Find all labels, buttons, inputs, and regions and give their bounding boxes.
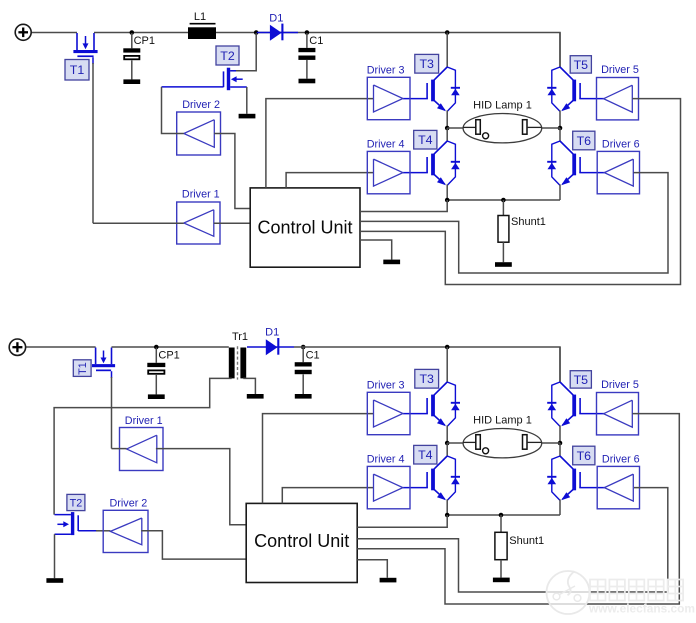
transformer Tr1 bbox=[229, 348, 235, 379]
wire Driver 4 input bbox=[286, 173, 373, 188]
svg-text:T4: T4 bbox=[418, 448, 433, 462]
wire Tr1 primary return bbox=[54, 378, 232, 514]
T6 label bbox=[573, 131, 595, 150]
wire Driver 2 input bbox=[214, 134, 250, 209]
wire T5 bottom emitter stub bbox=[559, 425, 561, 443]
driver U5 (Driver 5) bbox=[597, 78, 639, 120]
wire T5 gate bbox=[579, 98, 604, 100]
driver U4 (Driver 4) bbox=[367, 151, 410, 193]
wire control unit to bridge bbox=[360, 200, 447, 212]
wire bridge bottom rail bottom bbox=[447, 514, 560, 516]
transistor T1 (p-MOSFET) bbox=[76, 33, 78, 50]
capacitor C1 bbox=[306, 33, 308, 48]
wire Driver 3 bottom input bbox=[263, 414, 374, 504]
wire T2 gate bbox=[162, 86, 224, 88]
wire Driver 1 bottom input bbox=[156, 449, 246, 525]
wire Driver 2 output bbox=[162, 87, 184, 134]
svg-text:Driver 3: Driver 3 bbox=[367, 379, 405, 391]
wire T2 drain bbox=[230, 33, 256, 71]
T5 bottom label bbox=[570, 371, 591, 388]
svg-text:T1: T1 bbox=[70, 63, 85, 77]
svg-text:Shunt1: Shunt1 bbox=[511, 216, 546, 228]
wire bridge bottom rail bbox=[447, 199, 560, 201]
input terminal + (bottom) bbox=[9, 339, 25, 355]
T4 bottom label bbox=[414, 445, 437, 464]
wire T1 bottom gate down bbox=[111, 371, 113, 378]
driver U6 (Driver 6) bbox=[597, 151, 639, 193]
svg-text:T3: T3 bbox=[419, 57, 434, 71]
wire T4 emitter stub bbox=[446, 184, 448, 200]
wire bridge top rail bottom bbox=[447, 347, 560, 382]
transistor T3 bottom (IGBT) bbox=[434, 382, 447, 395]
svg-text:C1: C1 bbox=[306, 349, 320, 361]
control unit U7 bbox=[250, 188, 360, 267]
wire control unit to Driver 5 bbox=[360, 99, 681, 285]
svg-text:L1: L1 bbox=[194, 11, 206, 23]
wire Driver 1 bottom output bbox=[112, 448, 127, 450]
wire T4 gate bbox=[403, 172, 428, 174]
node lamp left junction bbox=[445, 126, 450, 131]
wire T3 emitter stub bbox=[446, 110, 448, 128]
wire T6 collector stub bbox=[559, 128, 561, 141]
wire bottom rail bbox=[112, 346, 229, 348]
svg-text:Control Unit: Control Unit bbox=[257, 217, 352, 237]
T1 bottom label bbox=[73, 360, 91, 377]
capacitor CP1 bbox=[131, 33, 133, 48]
driver U1 (Driver 1) bbox=[177, 202, 220, 244]
node C1 junction bbox=[305, 30, 310, 35]
diode D1 bottom bbox=[247, 346, 294, 348]
inductor L1 bbox=[188, 27, 216, 39]
wire T6 emitter stub bbox=[559, 184, 561, 200]
wire T6 bottom collector stub bbox=[559, 443, 561, 456]
transistor T6 (IGBT) bbox=[560, 141, 573, 154]
T2 ground bbox=[239, 114, 256, 119]
wire T3 bottom gate bbox=[403, 413, 428, 415]
svg-text:T4: T4 bbox=[418, 133, 433, 147]
svg-text:T5: T5 bbox=[574, 58, 589, 72]
wire T2 bottom source to ground bbox=[54, 534, 56, 578]
wire T2 bottom gate bbox=[78, 530, 96, 532]
lamp HID Lamp 1 bottom bbox=[447, 442, 463, 444]
wire Driver 3 input bbox=[266, 99, 374, 188]
driver U2 (Driver 2) bbox=[177, 112, 221, 155]
C1 bottom ground bbox=[295, 394, 312, 399]
node lamp left junction bottom bbox=[445, 441, 450, 446]
svg-text:Driver 5: Driver 5 bbox=[601, 379, 639, 391]
T2 bottom ground bbox=[46, 578, 63, 583]
node CP1 junction bbox=[130, 30, 135, 35]
transistor T2 (MOSFET) bbox=[227, 68, 230, 91]
transistor T6 bottom (IGBT) bbox=[560, 456, 573, 469]
svg-text:Driver 3: Driver 3 bbox=[367, 64, 405, 76]
svg-text:Driver 4: Driver 4 bbox=[367, 453, 405, 465]
control unit ground bbox=[383, 260, 400, 265]
capacitor C1 bottom bbox=[302, 348, 304, 363]
wire top rail bbox=[94, 32, 447, 34]
wire control unit bottom to bridge bbox=[357, 515, 447, 527]
driver U4 bottom (Driver 4) bbox=[367, 466, 410, 508]
wire T6 bottom emitter stub bbox=[559, 499, 561, 515]
svg-text:D1: D1 bbox=[269, 12, 283, 24]
svg-text:HID Lamp 1: HID Lamp 1 bbox=[473, 100, 532, 112]
svg-text:T2: T2 bbox=[220, 49, 235, 63]
svg-text:Driver 2: Driver 2 bbox=[182, 99, 220, 111]
wire T5 collector stub bbox=[559, 33, 561, 68]
driver U1 bottom (Driver 1) bbox=[120, 428, 164, 471]
svg-text:Control Unit: Control Unit bbox=[254, 531, 349, 551]
svg-text:T3: T3 bbox=[419, 372, 434, 386]
svg-text:Shunt1: Shunt1 bbox=[509, 535, 544, 547]
svg-text:Driver 6: Driver 6 bbox=[602, 138, 640, 150]
wire Driver 1 input bbox=[214, 222, 251, 224]
driver U3 (Driver 3) bbox=[367, 77, 410, 119]
svg-text:Driver 6: Driver 6 bbox=[602, 453, 640, 465]
wire control unit bottom ground bbox=[357, 560, 387, 578]
CP1 ground bbox=[123, 79, 140, 84]
svg-text:C1: C1 bbox=[309, 35, 323, 47]
node bridge top junction bbox=[445, 30, 450, 35]
T2 label bbox=[216, 46, 239, 65]
svg-text:Driver 4: Driver 4 bbox=[367, 138, 405, 150]
svg-text:Driver 2: Driver 2 bbox=[110, 498, 148, 510]
svg-text:Driver 1: Driver 1 bbox=[125, 415, 163, 427]
node bridge bottom junction bbox=[445, 198, 450, 203]
transistor T4 (IGBT) bbox=[434, 141, 447, 154]
node CP1 bottom junction bbox=[154, 345, 159, 350]
transistor T1 bottom (p-MOSFET) bbox=[95, 348, 97, 365]
diode D1 bbox=[257, 32, 298, 34]
wire T6 bottom gate bbox=[579, 487, 605, 489]
svg-text:www.elecfans.com: www.elecfans.com bbox=[588, 602, 695, 616]
wire Driver 4 bottom input bbox=[282, 488, 373, 504]
svg-text:CP1: CP1 bbox=[134, 35, 155, 47]
node C1 bottom junction bbox=[301, 345, 306, 350]
svg-text:T6: T6 bbox=[577, 449, 592, 463]
resistor Shunt1 bottom bbox=[500, 515, 502, 532]
wire T5 bottom gate bbox=[579, 413, 604, 415]
svg-text:Driver 1: Driver 1 bbox=[182, 189, 220, 201]
svg-text:Driver 5: Driver 5 bbox=[601, 64, 639, 76]
wire T3 bottom emitter stub bbox=[446, 425, 448, 443]
wire T4 collector stub bbox=[446, 128, 448, 141]
wire bridge top rail bbox=[447, 33, 560, 67]
T5 label bbox=[570, 56, 591, 73]
driver U2 bottom (Driver 2) bbox=[103, 510, 148, 552]
svg-text:T2: T2 bbox=[70, 497, 83, 509]
watermark logo bbox=[547, 571, 590, 614]
T3 bottom label bbox=[415, 369, 439, 388]
wire T6 gate bbox=[579, 172, 605, 174]
CP1 bottom ground bbox=[148, 394, 165, 399]
wire top rail left bbox=[31, 32, 77, 34]
T6 bottom label bbox=[573, 446, 595, 465]
wire control unit bottom to Driver 5 bbox=[357, 414, 679, 604]
wire T4 bottom collector stub bbox=[446, 443, 448, 456]
resistor Shunt1 bbox=[502, 200, 504, 216]
Shunt1 bottom ground bbox=[493, 578, 510, 583]
svg-text:D1: D1 bbox=[265, 327, 279, 339]
svg-text:T5: T5 bbox=[574, 373, 589, 387]
Shunt1 ground bbox=[495, 262, 512, 267]
control unit bottom ground bbox=[380, 578, 397, 583]
svg-text:Tr1: Tr1 bbox=[232, 331, 248, 343]
control unit U7 bottom bbox=[246, 503, 357, 582]
transistor T4 bottom (IGBT) bbox=[434, 456, 447, 469]
node bridge bottom junction bottom bbox=[445, 513, 450, 518]
wire control unit to Driver 6 bbox=[360, 173, 668, 273]
transistor T5 (IGBT) bbox=[560, 67, 573, 80]
C1 ground bbox=[299, 79, 316, 84]
node lamp right junction bbox=[558, 126, 563, 131]
wire T2 source to ground bbox=[246, 87, 248, 114]
driver U3 bottom (Driver 3) bbox=[367, 392, 410, 434]
driver U5 bottom (Driver 5) bbox=[597, 393, 639, 435]
T2 bottom label bbox=[67, 494, 85, 510]
driver U6 bottom (Driver 6) bbox=[597, 466, 639, 508]
wire Driver 1 output bbox=[93, 222, 184, 224]
wire T5 bottom collector stub bbox=[559, 347, 561, 382]
wire Driver 2 bottom input bbox=[141, 531, 246, 559]
svg-text:T1: T1 bbox=[77, 362, 89, 375]
wire T3 bottom collector stub bbox=[446, 347, 448, 382]
wire T4 bottom gate bbox=[403, 487, 428, 489]
wire bottom rail left bbox=[26, 346, 96, 348]
svg-text:CP1: CP1 bbox=[158, 349, 179, 361]
wire T3 collector stub bbox=[446, 33, 448, 68]
transistor T5 bottom (IGBT) bbox=[560, 382, 573, 395]
transistor T2 bottom (MOSFET) bbox=[71, 512, 74, 535]
capacitor CP1 bottom bbox=[155, 348, 157, 363]
svg-text:T6: T6 bbox=[577, 134, 592, 148]
transistor T3 (IGBT) bbox=[434, 67, 447, 80]
node shunt junction bottom bbox=[499, 513, 504, 518]
input terminal + (top) bbox=[15, 24, 31, 40]
wire control unit ground bbox=[360, 240, 392, 260]
T1 label bbox=[65, 60, 89, 81]
wire T5 emitter stub bbox=[559, 110, 561, 128]
wire bottom rail right bbox=[294, 346, 447, 348]
wire control unit bottom to Driver 6 bbox=[357, 488, 668, 592]
svg-text:HID Lamp 1: HID Lamp 1 bbox=[473, 415, 532, 427]
node shunt junction bbox=[501, 198, 506, 203]
T4 label bbox=[414, 130, 437, 149]
node T2 drain junction bbox=[254, 30, 259, 35]
wire T3 gate bbox=[403, 98, 428, 100]
lamp HID Lamp 1 bbox=[447, 127, 463, 129]
node bridge top junction bottom bbox=[445, 345, 450, 350]
wire Tr1 secondary return bbox=[243, 378, 255, 394]
node lamp right junction bottom bbox=[558, 441, 563, 446]
Tr1 ground bbox=[247, 394, 264, 399]
T3 label bbox=[415, 54, 439, 73]
wire T4 bottom emitter stub bbox=[446, 499, 448, 515]
wire T1 gate down bbox=[92, 57, 94, 64]
